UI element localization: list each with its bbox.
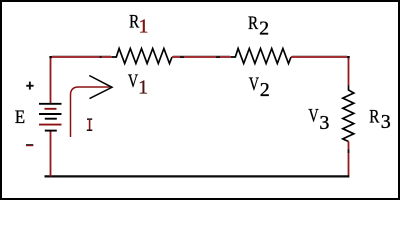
label V2 (249, 73, 259, 94)
current arrow I head (89, 76, 112, 99)
wire R3 down to bottom-right corner (348, 142, 350, 177)
svg-text:1: 1 (139, 16, 149, 38)
label R1 (129, 11, 140, 32)
label V3 (308, 104, 318, 125)
svg-text:2: 2 (259, 17, 269, 39)
svg-text:V: V (308, 104, 318, 125)
label E (15, 106, 25, 127)
node top-right corner (347, 56, 349, 58)
node top-left corner (49, 56, 51, 58)
battery E plate 6 short black (45, 130, 57, 132)
svg-text:1: 1 (138, 77, 148, 99)
svg-text:2: 2 (260, 79, 270, 101)
resistor R1 (112, 49, 172, 64)
wire bottom return (45, 175, 350, 177)
label - battery negative (26, 143, 33, 146)
svg-text:V: V (128, 70, 138, 91)
svg-text:V: V (249, 73, 259, 94)
svg-text:3: 3 (319, 112, 329, 134)
battery E plate 2 short red (45, 108, 57, 110)
svg-text:R: R (369, 106, 380, 127)
wire R1 to R2 (172, 56, 231, 58)
label V1 (128, 70, 138, 91)
label + battery positive (26, 85, 33, 87)
label I current (87, 118, 92, 120)
battery E plate 5 long red (39, 124, 62, 126)
battery E plate 3 long black (39, 113, 62, 115)
wire R2 to top-right corner down to R3 (291, 57, 349, 86)
wire junction mark (100, 56, 102, 58)
resistor R2 (231, 49, 291, 64)
battery E plate 4 short black (45, 118, 57, 120)
wire from battery positive up and right to R1 (51, 57, 113, 103)
label R3 (369, 106, 380, 127)
svg-text:R: R (248, 12, 259, 33)
svg-text:E: E (15, 106, 25, 127)
svg-text:3: 3 (381, 111, 391, 133)
current arrow I stem (71, 87, 112, 137)
battery E plate 1 long black (39, 103, 62, 105)
label R2 (248, 12, 259, 33)
wire battery negative down to bottom-left corner (50, 130, 52, 177)
resistor R3 (343, 86, 354, 142)
